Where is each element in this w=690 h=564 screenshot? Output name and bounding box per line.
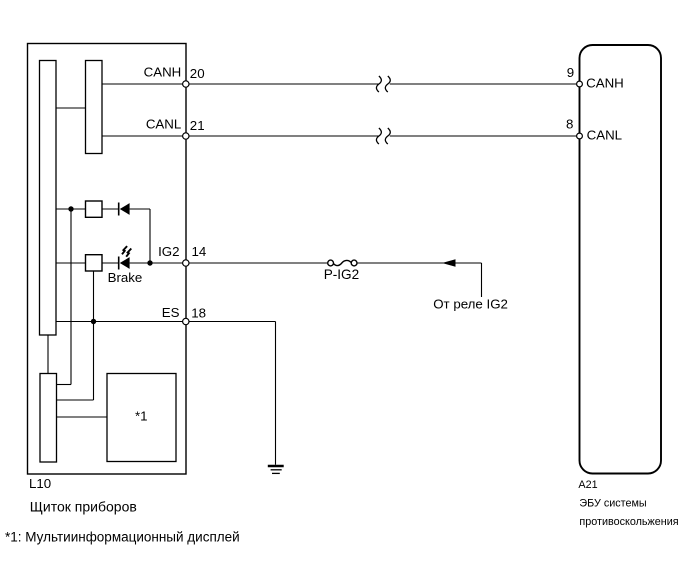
- lower bus bar: [40, 374, 57, 463]
- svg-text:20: 20: [190, 66, 205, 81]
- svg-text:CANL: CANL: [587, 128, 622, 143]
- wire break squiggle (CANL right): [385, 128, 390, 144]
- wire: brake box down through ES junction: [93, 271, 95, 400]
- wire: CANL inside cluster: [102, 135, 186, 137]
- svg-text:противоскольжения: противоскольжения: [579, 516, 678, 528]
- wire: CANH break to ECU: [390, 83, 580, 85]
- svg-text:От реле IG2: От реле IG2: [433, 297, 508, 312]
- brake lamp resistor box: [86, 255, 103, 271]
- wire: diode to corner: [130, 208, 150, 210]
- wire: LED to pin 14: [130, 262, 186, 264]
- svg-text:18: 18: [191, 306, 206, 321]
- wire: down to ground: [275, 322, 277, 465]
- svg-text:ES: ES: [162, 305, 180, 320]
- fuse P-IG2 left terminal: [328, 260, 334, 266]
- ECU A21 (skid control ECU): [580, 45, 662, 474]
- connector block L10 (instrument cluster outline): [28, 44, 187, 475]
- svg-text:CANL: CANL: [146, 117, 181, 132]
- svg-text:P-IG2: P-IG2: [324, 267, 360, 282]
- wire: box to diode: [102, 208, 119, 210]
- wire: CANL break to ECU: [390, 135, 580, 137]
- wire: lower rail to display: [57, 416, 108, 418]
- wire break squiggle (CANH right): [385, 76, 390, 92]
- CAN transceiver block: [86, 61, 103, 154]
- wire: to lower rail: [57, 384, 72, 386]
- multi-information display box *1: [107, 374, 176, 462]
- diode D1 triangle: [120, 203, 130, 215]
- wire: rail to CAN block: [56, 107, 86, 109]
- wire: rail bottom to lower rail: [47, 335, 49, 374]
- svg-text:*1: *1: [135, 409, 148, 424]
- pin 18 terminal circle: [183, 318, 189, 324]
- LED light arrow 2: [126, 249, 131, 257]
- svg-text:CANH: CANH: [586, 76, 624, 91]
- svg-text:8: 8: [566, 116, 573, 131]
- svg-text:14: 14: [192, 244, 207, 259]
- wire: box to LED: [102, 262, 119, 264]
- junction dot on ES line: [91, 319, 96, 324]
- svg-text:A21: A21: [578, 479, 597, 491]
- LED light arrow 1: [122, 246, 127, 254]
- wire: ES inside cluster: [56, 321, 186, 323]
- svg-text:IG2: IG2: [158, 244, 179, 259]
- svg-text:ЭБУ системы: ЭБУ системы: [579, 497, 647, 509]
- svg-text:Щиток приборов: Щиток приборов: [30, 498, 137, 514]
- lamp resistor box (upper): [86, 201, 103, 217]
- svg-text:9: 9: [567, 65, 574, 80]
- wire: pin 18 to ground corner: [189, 321, 276, 323]
- brake LED triangle: [120, 257, 130, 269]
- pin 9 terminal circle: [577, 81, 583, 87]
- wire: to lower rail: [57, 399, 94, 401]
- fuse P-IG2 right terminal: [351, 260, 357, 266]
- junction dot IG2/diode: [147, 260, 152, 265]
- fuse P-IG2 element curve: [334, 260, 352, 265]
- wire: pin 14 to fuse: [189, 262, 328, 264]
- ground symbol: [268, 466, 284, 473]
- wire: CANH inside cluster: [102, 83, 186, 85]
- brake LED cathode bar: [118, 257, 120, 270]
- wire: rail to upper lamp branch: [56, 208, 86, 210]
- pin 21 terminal circle: [183, 133, 189, 139]
- svg-text:CANH: CANH: [144, 64, 182, 79]
- wire: vertical from upper junction down: [70, 209, 72, 385]
- wire: fuse to source corner: [357, 262, 482, 264]
- svg-text:21: 21: [190, 118, 205, 133]
- internal bus bar (tall rail): [40, 61, 57, 336]
- svg-text:*1: Мультиинформационный диспл: *1: Мультиинформационный дисплей: [5, 530, 240, 545]
- wire: corner down to IG2 line: [149, 209, 151, 263]
- pin 20 terminal circle: [183, 81, 189, 87]
- wire: rail to brake lamp branch: [56, 262, 86, 264]
- svg-text:L10: L10: [29, 476, 51, 491]
- arrowhead from IG2 relay: [442, 259, 456, 267]
- pin 14 terminal circle: [183, 260, 189, 266]
- diode D1 cathode bar: [118, 203, 120, 216]
- svg-text:Brake: Brake: [108, 270, 143, 285]
- wire: CANL cluster to break: [186, 135, 379, 137]
- wire break squiggle (CANL left): [376, 128, 381, 144]
- junction dot on upper branch: [68, 206, 73, 211]
- wire: source corner down: [481, 263, 483, 297]
- wire break squiggle (CANH left): [376, 76, 381, 92]
- wire: CANH cluster to break: [186, 83, 379, 85]
- pin 8 terminal circle: [577, 133, 583, 139]
